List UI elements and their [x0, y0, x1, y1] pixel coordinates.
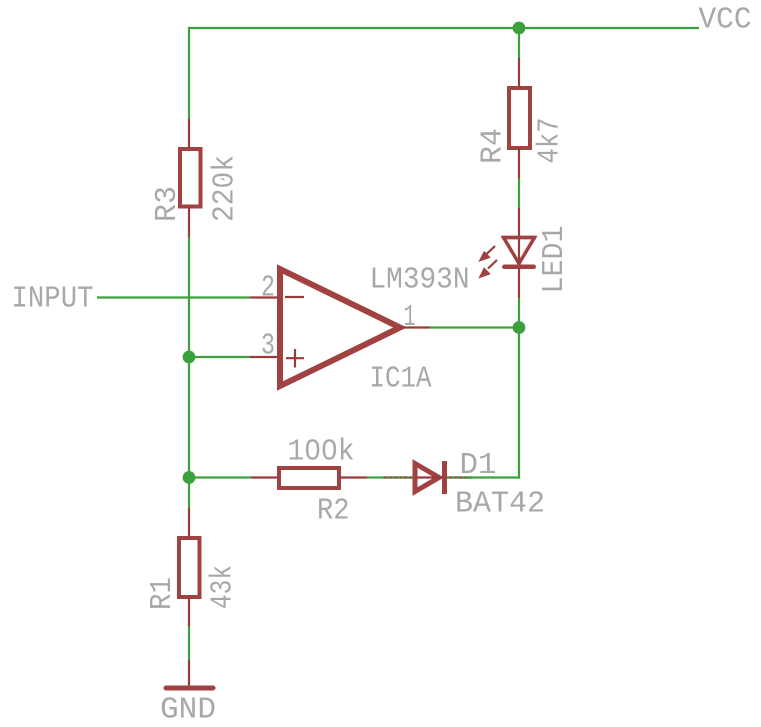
wire: junction to R2 — [189, 476, 251, 478]
wire: INPUT net to op-amp pin 2 — [97, 296, 250, 298]
wire: R1 to GND — [188, 627, 190, 660]
resistor R3 — [180, 149, 201, 207]
pin lead: op-amp pin 3 — [250, 356, 278, 358]
svg-text:100k: 100k — [288, 435, 355, 470]
svg-text:R4: R4 — [476, 128, 511, 164]
svg-text:VCC: VCC — [699, 3, 752, 38]
wire: vertical net from R3 down through junctions to R1 — [188, 237, 190, 508]
node: junction on VCC rail above R4 — [513, 22, 526, 35]
node: junction at op-amp pin 3 net — [183, 351, 196, 364]
wire: VCC top horizontal net — [188, 27, 699, 29]
pin lead: R2 left — [251, 476, 279, 478]
pin lead: R2 right — [339, 476, 367, 478]
LED1 light arrow 2 — [478, 260, 497, 279]
svg-text:43k: 43k — [206, 565, 241, 609]
svg-text:2: 2 — [261, 271, 275, 306]
LED1 light arrow 1 — [478, 246, 495, 262]
resistor R2 — [279, 468, 339, 488]
pin lead: R4 bottom — [518, 148, 520, 179]
svg-text:R3: R3 — [150, 186, 185, 222]
pin lead: D1 anode (overlapped by net) — [382, 476, 414, 478]
diode D1 — [415, 464, 439, 492]
pin lead: GND supply pin — [188, 660, 190, 686]
pin lead: R4 top — [518, 58, 520, 88]
wire: output net to LED junction — [430, 326, 519, 328]
wire: LED1 cathode to output junction — [518, 298, 520, 328]
pin lead: op-amp pin 2 — [250, 296, 278, 298]
node: junction feedback at divider — [183, 471, 196, 484]
wire: output junction down to feedback net — [518, 328, 520, 479]
wire: feedback horizontal right segment — [466, 476, 520, 478]
svg-text:R1: R1 — [145, 577, 180, 610]
svg-text:LED1: LED1 — [537, 226, 572, 294]
wire: D1 cathode net — [466, 476, 472, 478]
svg-text:INPUT: INPUT — [12, 282, 94, 317]
LED LED1 — [502, 238, 536, 267]
svg-text:3: 3 — [261, 329, 275, 364]
pin lead: R1 bottom — [188, 597, 190, 627]
op-amp U IC1A triangle — [280, 269, 400, 386]
op-amp inverting input minus sign — [285, 296, 304, 298]
pin lead: LED1 cathode — [518, 267, 520, 298]
wire: net between R4 and LED1 — [518, 179, 520, 209]
svg-text:IC1A: IC1A — [370, 362, 432, 397]
pin lead: R3 top — [188, 119, 190, 149]
resistor R4 — [509, 88, 530, 148]
pin lead: op-amp output pin 1 — [400, 326, 430, 328]
svg-text:220k: 220k — [208, 155, 243, 222]
wire: R2 to D1 — [367, 476, 382, 478]
svg-text:D1: D1 — [460, 448, 497, 483]
svg-text:1: 1 — [404, 300, 416, 335]
resistor R1 — [179, 538, 200, 597]
ground symbol bar — [166, 686, 213, 691]
pin lead: R1 top — [188, 508, 190, 538]
diode D1 cathode bar — [442, 461, 447, 494]
pin lead: R3 bottom — [188, 207, 190, 238]
svg-text:BAT42: BAT42 — [455, 487, 545, 522]
svg-text:4k7: 4k7 — [533, 118, 568, 164]
op-amp non-inverting input plus sign — [286, 357, 304, 359]
wire: vertical net from top wire down to R3 — [188, 27, 190, 119]
pin lead: LED1 anode — [518, 208, 520, 240]
svg-text:R2: R2 — [317, 494, 350, 529]
svg-text:GND: GND — [160, 693, 216, 727]
node: junction output / LED cathode — [513, 321, 526, 334]
svg-text:LM393N: LM393N — [370, 263, 470, 298]
wire: VCC rail down to R4 — [518, 28, 520, 58]
wire: pin 3 net — [189, 356, 250, 358]
pin lead: D1 cathode (overlapped by net) — [447, 476, 472, 478]
